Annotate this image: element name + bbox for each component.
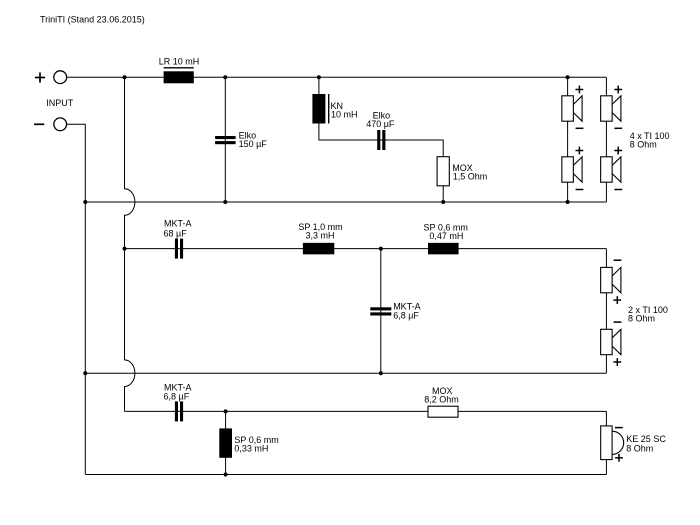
capacitor Elko 470 uF: [377, 130, 380, 150]
svg-text:1,5 Ohm: 1,5 Ohm: [453, 171, 488, 181]
inductor LR 10 mH core line: [164, 67, 194, 69]
plus mark chain2 upper: [614, 89, 622, 91]
inductor SP 1,0 mm 3,3 mH: [303, 243, 334, 255]
wire speaker chain1: [567, 77, 569, 202]
tweeter KE 25 SC dome: [612, 431, 624, 454]
plus mark tweeter: [615, 457, 623, 459]
minus mark chain1 upper: [576, 127, 584, 129]
node junction row2 + branch: [123, 247, 127, 251]
svg-text:TriniTI (Stand 23.06.2015): TriniTI (Stand 23.06.2015): [40, 15, 145, 25]
capacitor MKT-A 6,8 uF row2: [370, 307, 391, 310]
inductor LR 10 mH: [164, 71, 194, 83]
inductor SP 0,6 mm 0,47 mH: [428, 243, 459, 255]
node junction row2 shunt bottom: [379, 371, 383, 375]
svg-text:8 Ohm: 8 Ohm: [628, 313, 655, 323]
wire row1 + rail: [67, 76, 607, 78]
node junction row2 - rail left: [83, 371, 87, 375]
resistor MOX 1,5 Ohm: [437, 157, 449, 186]
capacitor MKT-A 68 uF: [175, 239, 178, 259]
node junction chain1 top: [566, 75, 570, 79]
wire Elko 150 branch: [224, 77, 226, 202]
wire row3 shunt: [225, 411, 227, 474]
resistor MOX 8,2 Ohm: [428, 406, 458, 417]
svg-text:LR 10 mH: LR 10 mH: [159, 56, 200, 66]
svg-text:10 mH: 10 mH: [331, 110, 358, 120]
capacitor MKT-A 6,8 uF row3: [175, 401, 178, 421]
wire MOX bottom to - rail: [442, 186, 444, 202]
minus mark row2 upper: [614, 259, 622, 261]
svg-text:8 Ohm: 8 Ohm: [630, 140, 657, 150]
node junction at + rail / + branch: [123, 75, 127, 79]
speaker chain1 lower (TI 100): [562, 157, 574, 182]
node junction Elko 150 bottom: [223, 200, 227, 204]
capacitor Elko 150 uF: [215, 136, 236, 139]
minus mark chain2 upper: [614, 127, 622, 129]
plus mark row2 upper: [613, 299, 621, 301]
wire row2 - rail: [85, 372, 606, 374]
node junction KN top: [317, 75, 321, 79]
node junction row3 shunt bottom: [224, 473, 228, 477]
svg-text:3,3 mH: 3,3 mH: [305, 230, 334, 240]
svg-text:470 µF: 470 µF: [366, 119, 395, 129]
plus mark chain2 lower: [614, 150, 622, 152]
wire row1 - rail: [85, 201, 606, 203]
wire KN to Elko470 to MOX: [319, 124, 443, 157]
node junction chain1 bottom: [566, 200, 570, 204]
wire from - terminal to bottom rail: [67, 124, 86, 474]
minus mark chain2 lower: [614, 189, 622, 191]
node junction row3 shunt top: [224, 409, 228, 413]
svg-text:150 µF: 150 µF: [239, 139, 268, 149]
plus mark chain1 lower: [576, 150, 584, 152]
tweeter KE 25 SC body: [601, 426, 612, 460]
svg-text:0,33 mH: 0,33 mH: [234, 444, 268, 454]
svg-text:INPUT: INPUT: [46, 98, 74, 108]
svg-text:68 µF: 68 µF: [164, 228, 188, 238]
wire row3 + from branch corner: [125, 410, 607, 412]
terminal + (input): [54, 71, 67, 84]
speaker chain2 lower (TI 100): [601, 157, 613, 182]
minus sign of - input terminal: [34, 123, 44, 125]
minus mark tweeter: [615, 427, 623, 429]
wire speaker chain2: [605, 77, 607, 202]
inductor SP 0,6 mm 0,33 mH: [219, 428, 232, 457]
speaker row2 upper (TI 100): [601, 267, 613, 292]
inductor KN core line: [328, 94, 330, 124]
speaker chain2 upper (TI 100): [601, 96, 613, 121]
minus mark row2 lower: [614, 321, 622, 323]
speaker chain1 upper (TI 100): [562, 96, 574, 121]
svg-text:0,47 mH: 0,47 mH: [429, 231, 463, 241]
svg-text:6,8 µF: 6,8 µF: [393, 311, 419, 321]
terminal - (input): [54, 118, 67, 131]
node junction - rail / - input branch: [83, 200, 87, 204]
minus mark chain1 lower: [576, 189, 584, 191]
plus mark chain1 upper: [576, 89, 584, 91]
svg-text:8 Ohm: 8 Ohm: [626, 443, 653, 453]
plus mark row2 lower: [613, 361, 621, 363]
wire bottom rail: [85, 474, 606, 476]
wire KN branch down: [318, 77, 320, 94]
svg-text:6,8 µF: 6,8 µF: [164, 392, 190, 402]
node junction row2 shunt top: [379, 247, 383, 251]
svg-text:8,2 Ohm: 8,2 Ohm: [424, 395, 459, 405]
plus sign of + input terminal: [35, 77, 45, 79]
wire row2 right rail: [605, 249, 607, 374]
wire row2 shunt: [380, 249, 382, 374]
svg-text:MKT-A: MKT-A: [164, 218, 192, 228]
inductor KN 10 mH: [312, 94, 325, 124]
wire row2 + rail: [125, 248, 607, 250]
wire + branch vertical with hops: [125, 77, 135, 411]
node junction Elko 150 top: [223, 75, 227, 79]
speaker row2 lower (TI 100): [601, 329, 613, 354]
node junction MOX bottom: [441, 200, 445, 204]
wire tweeter right rail: [605, 411, 607, 474]
